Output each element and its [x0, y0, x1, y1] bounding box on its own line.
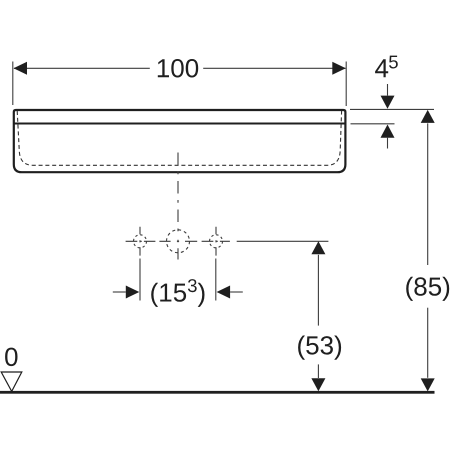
dim 53 label	[298, 336, 341, 360]
dim 45 superscript	[389, 56, 398, 69]
ground line	[0, 391, 435, 394]
dim 153 extension line left	[139, 259, 141, 301]
dim 153 label closing paren	[198, 283, 205, 307]
dim 45 label	[375, 59, 388, 77]
dim 45 upper stem	[387, 84, 389, 96]
dim 153 arrow right	[217, 286, 231, 299]
dim 100 line left segment	[14, 67, 150, 69]
dim 53 line upper segment	[317, 255, 319, 326]
datum triangle	[1, 372, 22, 391]
dim 85 line lower segment	[427, 308, 429, 378]
dim 53 line lower segment	[317, 364, 319, 378]
dim 100 arrow left	[14, 62, 28, 75]
dim 100 extension line right	[345, 62, 347, 107]
basin outer outline	[14, 110, 346, 172]
basin inner hidden outline dashed	[17, 111, 341, 165]
dim 53 arrow up	[311, 241, 325, 254]
dim 153 stem left	[113, 291, 126, 293]
dim 53 arrow down	[311, 378, 325, 391]
middle faucet hole cross	[159, 230, 197, 253]
dim 153 extension line right	[215, 259, 217, 301]
dim 45 lower stem	[387, 138, 389, 149]
dim 100 label	[158, 59, 198, 78]
datum zero label	[5, 348, 17, 367]
basin rim line	[14, 123, 346, 125]
dim 153 stem right	[230, 291, 243, 293]
dim 85 arrow up	[421, 110, 435, 123]
vertical centerline chain	[177, 153, 179, 260]
dim 153 label	[151, 283, 186, 307]
dim 45 arrow down	[381, 96, 395, 109]
left faucet hole cross	[126, 227, 156, 256]
thin level line top (basin top edge extended)	[350, 108, 434, 110]
dim 85 line upper segment	[427, 123, 429, 265]
right faucet hole cross	[202, 227, 230, 256]
dim 100 extension line left	[12, 62, 14, 106]
dim 85 label	[406, 277, 449, 301]
dim 100 line right segment	[203, 67, 345, 69]
dim 45 arrow up	[381, 125, 395, 138]
dim 85 arrow down	[421, 378, 435, 391]
thin level line rim (rim extended)	[351, 123, 395, 125]
dim 100 arrow right	[332, 62, 346, 75]
horizontal line to dim 53	[237, 240, 329, 242]
dim 153 superscript	[188, 279, 197, 292]
dim 153 arrow left	[126, 286, 140, 299]
